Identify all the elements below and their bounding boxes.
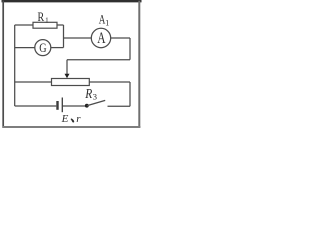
border frame	[2, 1, 142, 128]
wire left vertical	[14, 25, 16, 106]
svg-text:r: r	[76, 113, 81, 125]
svg-text:1: 1	[105, 19, 109, 28]
wire rheostat right	[89, 81, 130, 83]
wire battery left	[15, 105, 57, 107]
svg-text:A: A	[97, 29, 105, 46]
svg-text:R: R	[38, 10, 45, 25]
svg-text:R: R	[84, 86, 92, 101]
wire galvanometer right	[51, 47, 64, 49]
rheostat R3	[52, 79, 98, 102]
ammeter A1	[91, 13, 110, 47]
svg-text:1: 1	[45, 16, 49, 25]
wire battery to switch	[63, 105, 85, 107]
wire mid vertical junction	[57, 25, 64, 48]
wire to ammeter	[63, 37, 91, 39]
ideographic comma	[71, 118, 75, 122]
resistor R1	[33, 10, 57, 28]
wiper arrow	[65, 60, 70, 79]
wire right vertical upper	[129, 38, 131, 60]
wire ammeter right	[111, 37, 130, 39]
svg-text:E: E	[61, 113, 69, 125]
switch S	[85, 100, 105, 107]
wire galvanometer left	[15, 47, 35, 49]
svg-text:3: 3	[93, 92, 97, 102]
wire wiper horizontal	[67, 59, 130, 61]
battery E,r	[58, 98, 82, 126]
svg-text:G: G	[39, 41, 47, 55]
wire bottom right	[108, 105, 131, 107]
wire right vertical lower	[129, 82, 131, 106]
wire top	[15, 24, 33, 26]
galvanometer G	[35, 40, 51, 56]
wire rheostat left	[15, 81, 52, 83]
